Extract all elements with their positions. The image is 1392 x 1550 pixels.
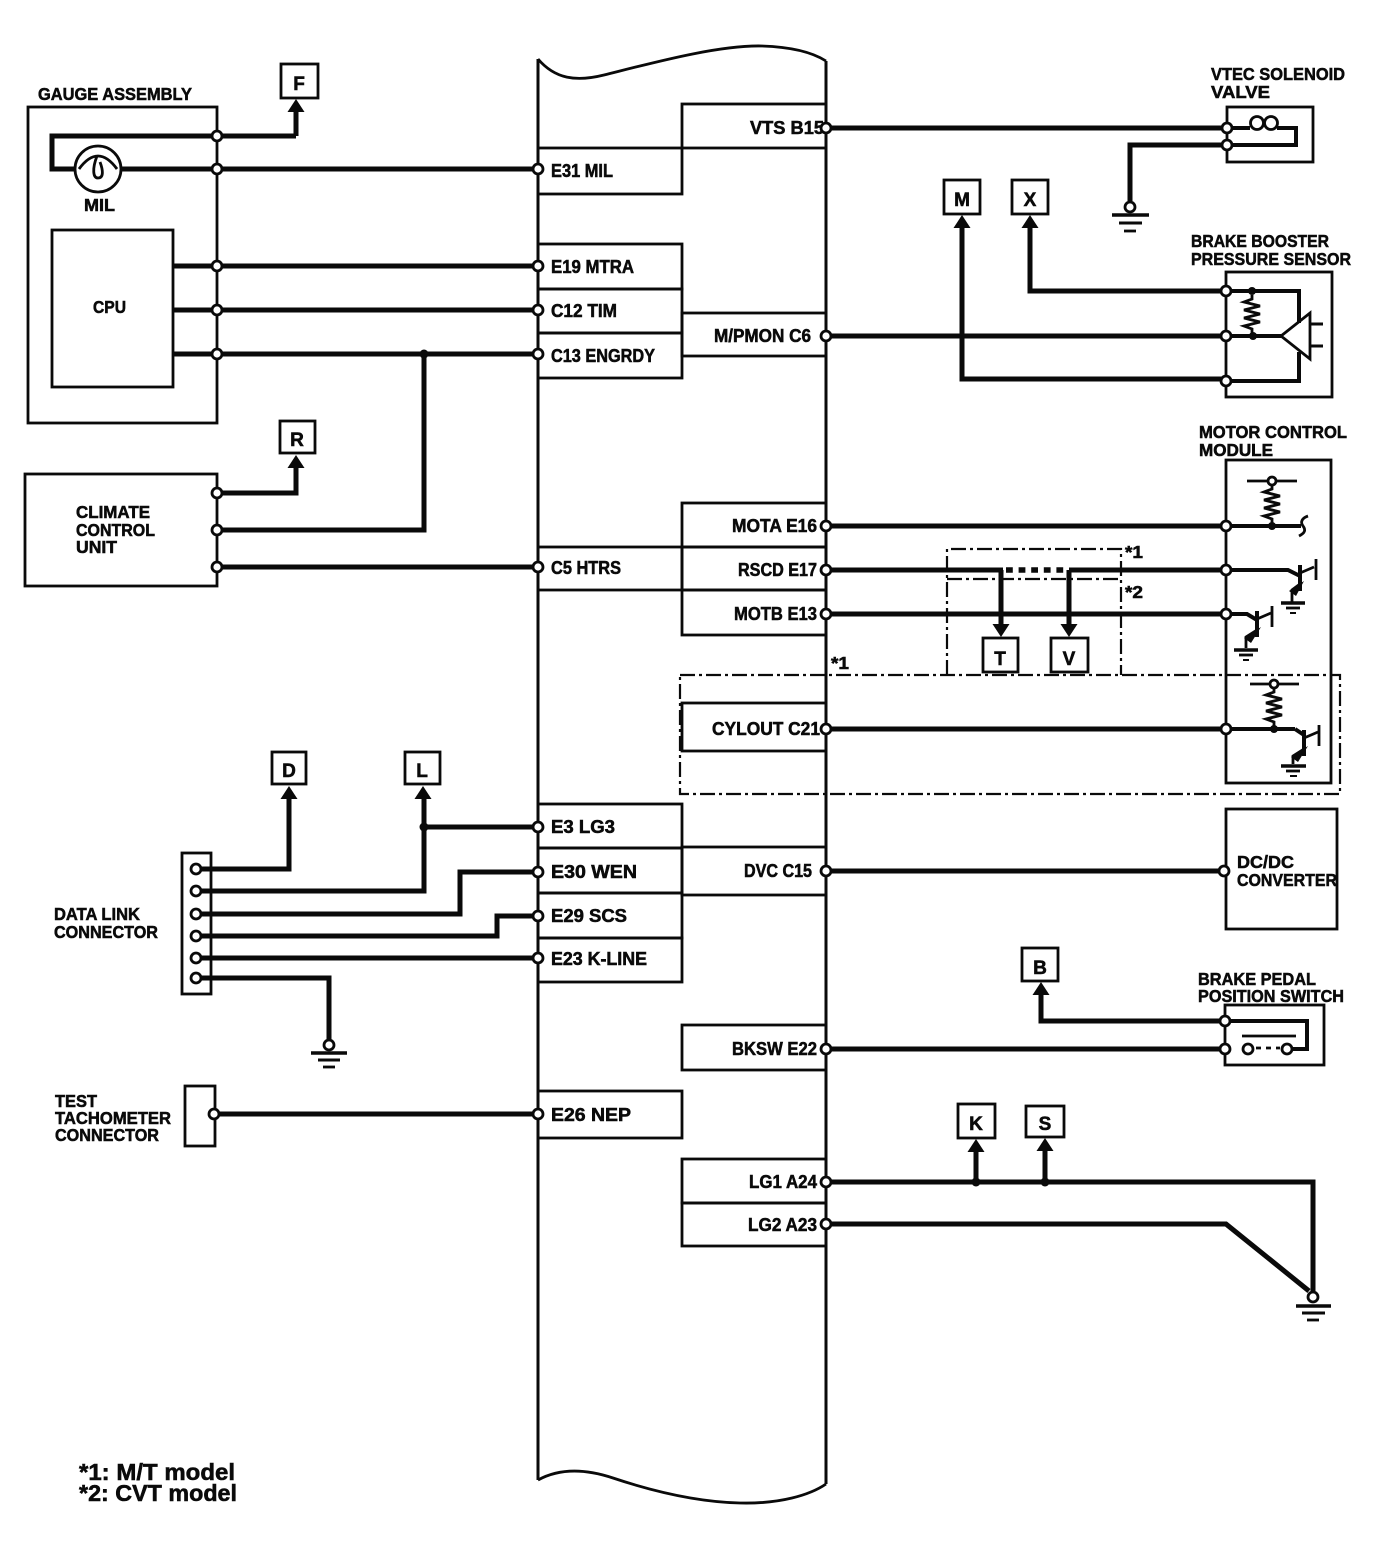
wire E26 NEP (218, 1112, 536, 1117)
svg-text:S: S (1039, 1114, 1052, 1135)
sensor internal lower path (1230, 352, 1299, 381)
transistor Q2 (MOTB) (1230, 614, 1257, 620)
svg-text:X: X (1024, 190, 1037, 211)
ground VTEC valve (1125, 202, 1135, 212)
connector T (983, 638, 1018, 672)
connector F (281, 64, 318, 98)
pin box E29 SCS (538, 893, 682, 938)
wire E19 MTRA (173, 264, 536, 269)
pin box E3 LG3 (538, 804, 682, 848)
wire DLC pin2 to L and E3 LG3 junction (201, 797, 424, 891)
wire DLC pin6 to ground (201, 978, 329, 1040)
wire LG1 A24 to ground (826, 1182, 1313, 1292)
svg-text:E29 SCS: E29 SCS (551, 906, 627, 926)
switch internals (1230, 1021, 1307, 1049)
wire MOTA E16 (826, 524, 1226, 529)
svg-text:*2: CVT model: *2: CVT model (79, 1480, 237, 1506)
sensor internal signal path (1230, 334, 1281, 338)
motor control module box (1226, 460, 1331, 783)
ground data link connector (324, 1040, 334, 1050)
CPU box (52, 230, 173, 387)
svg-text:GAUGE ASSEMBLY: GAUGE ASSEMBLY (38, 84, 192, 104)
svg-text:VTEC SOLENOID: VTEC SOLENOID (1211, 64, 1345, 84)
lamp MIL (75, 146, 121, 192)
junction S on LG1 (1041, 1178, 1050, 1187)
climate control unit box (25, 474, 217, 586)
svg-text:MIL: MIL (84, 195, 115, 215)
svg-text:K: K (969, 1114, 983, 1135)
pin box E26 NEP (538, 1091, 682, 1138)
climate box edge circles (212, 488, 222, 498)
op-amp triangle (1281, 313, 1310, 359)
junction C13/climate (420, 350, 429, 359)
wire E30 WEN (201, 872, 536, 914)
svg-text:VALVE: VALVE (1211, 82, 1270, 102)
pin box DVC C15 (682, 847, 826, 895)
svg-text:E19 MTRA: E19 MTRA (551, 257, 634, 277)
wire C13 ENGRDY (173, 352, 536, 357)
MOTA terminal hook (1299, 516, 1308, 536)
data link connector body (182, 853, 211, 994)
svg-text:E23 K-LINE: E23 K-LINE (551, 949, 647, 969)
VTEC valve pin circles (1222, 123, 1232, 133)
svg-text:*2: *2 (1125, 582, 1143, 602)
ground Q3 (1281, 764, 1306, 768)
wire E29 SCS (201, 916, 536, 936)
pin box C13 ENGRDY (538, 333, 682, 378)
pin box LG1 A24 (682, 1159, 826, 1203)
pin box E30 WEN (538, 848, 682, 893)
sensor pin circles (1221, 286, 1231, 296)
pin box E31 MIL (538, 148, 682, 194)
junction K on LG1 (972, 1178, 981, 1187)
connector R (280, 421, 315, 453)
wire M/PMON C6 (826, 334, 1226, 339)
svg-text:D: D (282, 761, 296, 782)
svg-text:BKSW E22: BKSW E22 (732, 1039, 817, 1059)
svg-text:E30 WEN: E30 WEN (551, 862, 637, 882)
wire CYLOUT C21 (826, 727, 1226, 732)
svg-text:CYLOUT C21: CYLOUT C21 (712, 719, 820, 739)
connector S (1026, 1106, 1064, 1137)
wire S stub (1043, 1149, 1048, 1182)
connector L (405, 752, 440, 784)
sensor internal supply path (1230, 291, 1299, 323)
wire climate to C13 junction (222, 354, 424, 530)
wire drop to T (999, 570, 1004, 624)
wire C12 TIM (173, 308, 536, 313)
svg-text:E26 NEP: E26 NEP (551, 1105, 631, 1125)
wire climate to R (222, 466, 296, 493)
svg-text:POSITION SWITCH: POSITION SWITCH (1198, 986, 1344, 1006)
pin box MOTA E16 (682, 503, 826, 547)
svg-text:DC/DC: DC/DC (1237, 852, 1294, 872)
wire E3 LG3 (424, 825, 536, 830)
svg-text:DVC C15: DVC C15 (744, 861, 812, 881)
svg-text:B: B (1033, 958, 1047, 979)
svg-text:E31 MIL: E31 MIL (551, 161, 613, 181)
wire K stub (974, 1150, 979, 1182)
ECM left edge (537, 59, 540, 1480)
switch pin circles (1220, 1016, 1230, 1026)
connector X (1012, 180, 1048, 214)
gauge assembly box (28, 107, 217, 423)
connector M (944, 180, 980, 214)
dash-dot option box around T and V (947, 549, 1121, 675)
wire VTEC valve to ground (1130, 145, 1222, 201)
ECM right edge (825, 61, 828, 1484)
wire drop to V (1067, 570, 1072, 624)
wire brake pedal switch to B (1041, 993, 1225, 1021)
wire BKSW E22 (826, 1047, 1225, 1052)
svg-text:RSCD E17: RSCD E17 (738, 560, 817, 580)
svg-text:C12 TIM: C12 TIM (551, 301, 617, 321)
ground Q2 (1234, 648, 1258, 652)
pin box VTS B15 (682, 104, 826, 148)
connector V (1051, 638, 1088, 672)
svg-text:MODULE: MODULE (1199, 440, 1273, 460)
svg-text:V: V (1063, 649, 1076, 670)
svg-text:MOTA E16: MOTA E16 (732, 516, 817, 536)
wire X to brake booster sensor (1030, 226, 1226, 291)
wire RSCD E17 (solid right) (1069, 568, 1226, 573)
pin box E19 MTRA (538, 244, 682, 289)
pin box BKSW E22 (682, 1025, 826, 1070)
ECM right edge pin circles (821, 123, 831, 133)
brake pedal position switch box (1225, 1005, 1324, 1065)
pin box C5 HTRS (538, 547, 682, 590)
module pull-up resistor (MOTA) (1247, 480, 1297, 483)
pin box RSCD E17 (682, 547, 826, 590)
pin box CYLOUT C21 (682, 703, 826, 751)
pin box E23 K-LINE (538, 938, 682, 982)
VTEC coil (1232, 126, 1250, 130)
svg-text:*1: *1 (1125, 542, 1143, 562)
gauge box edge circles (212, 131, 222, 141)
svg-text:C13 ENGRDY: C13 ENGRDY (551, 346, 655, 366)
svg-text:R: R (290, 430, 304, 451)
pin box LG2 A23 (682, 1203, 826, 1246)
transistor Q3 (CYLOUT) (1295, 729, 1304, 735)
svg-text:CPU: CPU (93, 297, 126, 317)
connector D (272, 752, 306, 784)
svg-text:F: F (293, 74, 305, 95)
DC/DC converter box (1226, 809, 1337, 929)
ground Q1 (1281, 601, 1305, 605)
svg-text:UNIT: UNIT (76, 537, 117, 557)
svg-text:CLIMATE: CLIMATE (76, 502, 150, 522)
svg-text:MOTB E13: MOTB E13 (734, 604, 817, 624)
transistor Q1 (RSCD) (1230, 570, 1300, 576)
ECM left edge pin circles (533, 164, 543, 174)
wire DLC pin1 to D (201, 797, 289, 869)
svg-text:T: T (994, 649, 1006, 670)
svg-text:C5 HTRS: C5 HTRS (551, 558, 621, 578)
svg-text:VTS B15: VTS B15 (750, 118, 824, 138)
resistor brake booster sensor (1244, 295, 1260, 333)
svg-text:M: M (954, 190, 970, 211)
ECM torn top edge (538, 46, 826, 78)
svg-text:BRAKE BOOSTER: BRAKE BOOSTER (1191, 231, 1329, 251)
connector B (1022, 948, 1058, 981)
svg-text:CONVERTER: CONVERTER (1237, 870, 1337, 890)
pin box M/PMON C6 (682, 313, 826, 356)
wire M to brake booster sensor (962, 226, 1226, 379)
svg-text:*1: *1 (831, 653, 849, 673)
svg-text:CONNECTOR: CONNECTOR (54, 922, 158, 942)
wire E31 MIL (120, 167, 536, 172)
wire E23 K-LINE (201, 956, 536, 961)
wire RSCD E17 (dotted CVT segment) (1006, 567, 1069, 573)
svg-text:CONNECTOR: CONNECTOR (55, 1125, 159, 1145)
module pull-up resistor (CYLOUT) (1250, 683, 1299, 686)
brake booster pressure sensor box (1226, 272, 1332, 397)
wire MIL supply to connector F (52, 136, 296, 169)
wire RSCD E17 (solid left) (826, 568, 1003, 573)
wire C5 HTRS (222, 565, 536, 570)
ground LG1/LG2 (1308, 1292, 1318, 1302)
svg-text:LG2 A23: LG2 A23 (748, 1215, 817, 1235)
DLC pin circles (191, 864, 201, 874)
ECM torn bottom edge (538, 1471, 826, 1503)
dash-dot option box CYLOUT (M/T) (680, 675, 1340, 794)
VTEC solenoid valve box (1227, 107, 1313, 162)
pin box C12 TIM (538, 289, 682, 333)
svg-text:E3 LG3: E3 LG3 (551, 817, 615, 837)
svg-text:DATA LINK: DATA LINK (54, 904, 140, 924)
svg-text:PRESSURE SENSOR: PRESSURE SENSOR (1191, 249, 1351, 269)
module pin circles (1221, 521, 1231, 531)
pin box MOTB E13 (682, 590, 826, 635)
wire VTS B15 to VTEC valve (826, 126, 1227, 131)
wire MOTB E13 (826, 612, 1226, 617)
svg-text:M/PMON C6: M/PMON C6 (714, 326, 811, 346)
junction LG3/L (420, 823, 429, 832)
test tachometer connector body (185, 1086, 215, 1146)
svg-text:LG1 A24: LG1 A24 (749, 1172, 817, 1192)
connector K (958, 1104, 995, 1138)
wire LG2 A23 to ground (826, 1224, 1309, 1291)
svg-text:MOTOR CONTROL: MOTOR CONTROL (1199, 422, 1347, 442)
svg-text:L: L (416, 761, 428, 782)
wire DVC C15 (826, 869, 1223, 874)
